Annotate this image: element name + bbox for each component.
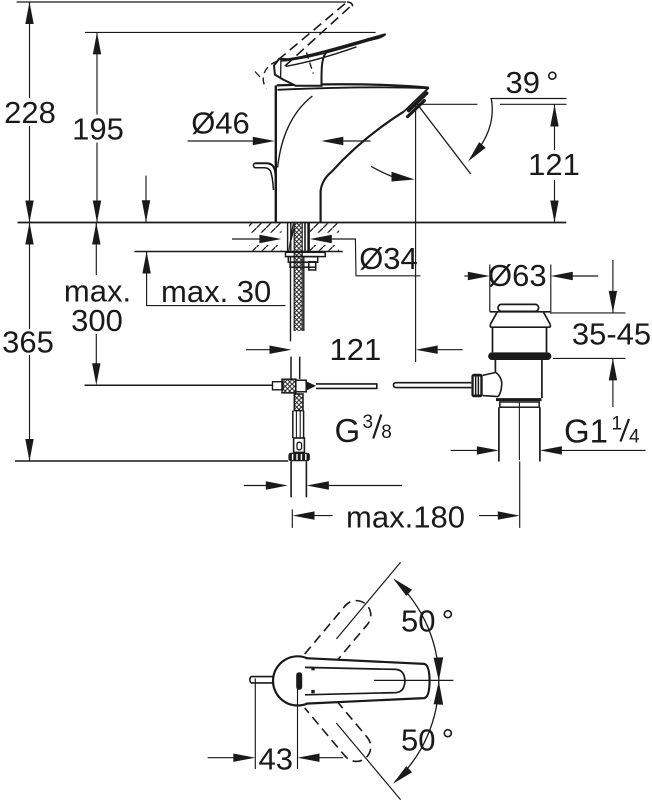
svg-text:121: 121 <box>330 332 382 367</box>
svg-text:50 °: 50 ° <box>401 723 454 758</box>
dim 121 mid left arrow <box>270 346 292 354</box>
handle raised dashed butt tick <box>255 72 260 78</box>
hose right outer line <box>303 257 305 332</box>
dim max300 arrow down <box>92 363 100 385</box>
top view handle dot lower <box>311 690 314 693</box>
counter hatching right block <box>310 223 339 232</box>
faucet interior contour curve <box>278 96 313 168</box>
dim max180 right tail <box>479 515 498 517</box>
top view handle base circle <box>273 656 308 705</box>
drain center line <box>518 402 520 460</box>
knurled coupling nut <box>288 453 310 461</box>
handle butt face line <box>280 60 282 78</box>
counter hatching left block <box>249 223 282 232</box>
rod segment A <box>316 384 377 389</box>
svg-text:43: 43 <box>258 742 292 777</box>
dim 43 left tail <box>208 757 235 759</box>
dim 195 line lower <box>96 143 98 223</box>
drain neck walls <box>493 327 547 352</box>
drain body walls <box>495 360 542 398</box>
handle lever interior line lower <box>286 47 357 67</box>
dim 43 right arrow <box>298 754 320 762</box>
top view arc down arrowhead at leg <box>393 766 412 784</box>
dim G1 1/4 left tail <box>451 449 478 451</box>
dim 195 line upper <box>96 32 98 114</box>
handle raised dashed front line <box>307 53 314 74</box>
mounting nut step 1 <box>288 257 317 263</box>
dim 39 shelf line <box>490 98 566 100</box>
svg-text:3: 3 <box>363 412 374 433</box>
dim Ø63 right arrow <box>551 272 573 280</box>
dim G1 1/4 left arrow <box>477 446 499 454</box>
drain tailpipe walls <box>499 407 540 461</box>
rod tee square <box>296 380 306 392</box>
dim 121 mid right arrow <box>416 346 438 354</box>
dim 35-45 lower extension line <box>553 357 626 359</box>
svg-text:50 °: 50 ° <box>401 604 454 639</box>
dim 39 arc <box>471 99 492 159</box>
rod segment B <box>394 383 472 388</box>
dim 121 top arrow up <box>550 105 558 127</box>
faucet deck lower line <box>278 87 429 90</box>
dim G1 1/4 right tail <box>562 449 646 451</box>
dim Ø46 left arrow <box>253 137 275 145</box>
svg-text:8: 8 <box>381 422 392 443</box>
dim 365 arrow up <box>25 223 33 245</box>
faucet pull-rod knob left cap <box>253 163 254 168</box>
top view pull-rod stub <box>250 677 278 683</box>
dim 365 arrow down <box>25 439 33 461</box>
dim 43 left extension line <box>254 678 256 769</box>
mounting nut side square <box>309 262 316 270</box>
dim 228 arrow down <box>25 201 33 223</box>
dim G3/8 right tail <box>329 485 403 487</box>
dim max300 line upper <box>95 223 97 276</box>
drain flange bottom line <box>490 326 550 328</box>
dim Ø63 left tail <box>464 275 469 277</box>
dim 365 line lower <box>29 355 31 461</box>
faucet aerator strip A <box>409 93 427 110</box>
dim 39 arc arrowhead <box>468 142 486 161</box>
dim 43 right extension line <box>297 686 299 769</box>
faucet body left edge <box>275 85 277 222</box>
hose tube inner lines <box>296 411 300 438</box>
drain body bottom edge <box>496 398 542 401</box>
rod left fitting <box>273 382 284 390</box>
hose end bead block <box>294 438 305 452</box>
dim Ø34 left arrow <box>259 235 281 243</box>
svg-text:365: 365 <box>2 325 54 360</box>
faucet aerator strip B <box>408 101 425 117</box>
dim max180 left arrow <box>293 511 315 519</box>
dim 35-45 line lower with up arrow <box>612 358 614 407</box>
handle lever interior line upper <box>281 38 378 61</box>
counter top line <box>18 222 567 224</box>
shank taper lines <box>289 224 295 252</box>
dim Ø46 right tail <box>343 140 371 142</box>
pull rod left segment <box>85 384 273 386</box>
aerator diagonal leader <box>418 105 471 175</box>
dim Ø63 right tail <box>573 275 599 277</box>
top view angle leg up <box>336 562 400 639</box>
dim 43 right tail <box>319 757 343 759</box>
top view arc down <box>395 681 439 782</box>
dim max30 lower line with up arrow and shelf <box>147 252 286 306</box>
dim Ø34 leader <box>331 239 420 276</box>
drain knurled knob <box>471 374 482 398</box>
dim 365 line upper <box>29 223 31 330</box>
svg-text:max.180: max.180 <box>346 500 465 535</box>
svg-text:G: G <box>335 412 361 449</box>
dim G3/8 slash <box>373 415 381 439</box>
svg-text:Ø46: Ø46 <box>191 106 250 141</box>
rod tee wedge <box>306 381 316 390</box>
dim G1 1/4 slash <box>621 419 630 442</box>
dim 121 mid left tail <box>246 349 270 351</box>
mounting washer <box>286 252 326 256</box>
dim max180 right arrow <box>498 511 520 519</box>
top view handle dot upper <box>311 667 314 670</box>
dim 35-45 upper extension line <box>552 312 626 314</box>
svg-text:4: 4 <box>629 427 640 448</box>
dim Ø63 right extension line <box>550 265 552 314</box>
dim max300 arrow up <box>92 223 100 245</box>
dim Ø46 left tail <box>188 140 253 142</box>
faucet pull-rod knob inner <box>255 168 274 190</box>
svg-text:228: 228 <box>4 95 56 130</box>
hose end bead hole <box>297 442 302 450</box>
dim 121 top line upper <box>554 105 556 151</box>
handle raised dashed butt arc <box>263 61 277 89</box>
counter bottom line <box>134 251 342 253</box>
handle lever solid outline <box>274 34 386 86</box>
top view angle leg down <box>336 723 400 800</box>
hose tube outer walls <box>293 411 304 438</box>
top view arc up <box>395 580 439 681</box>
hose lower wall lines above rod tee <box>291 357 300 379</box>
svg-text:35-45: 35-45 <box>572 317 651 352</box>
drain flange flare left <box>490 312 497 327</box>
top view handle inner outline <box>305 667 405 694</box>
top view center line <box>374 679 453 681</box>
top view dashed lever down <box>305 689 377 767</box>
flow arc arrow tail <box>371 166 392 176</box>
mounting nut step 2 <box>290 262 316 267</box>
drain side horn outline <box>483 372 502 396</box>
top view arc down arrowhead at center line <box>434 681 444 705</box>
dim 228 line upper <box>29 2 31 98</box>
hose crosshatch below tee <box>294 394 303 411</box>
handle raised dashed lower line <box>285 5 353 67</box>
dim 228 line lower <box>29 126 31 223</box>
flexible hose crosshatch upper <box>294 224 302 332</box>
drain flange shoulder line <box>490 311 551 313</box>
shank right wall pair <box>304 223 306 252</box>
flow arc arrowhead <box>392 172 415 182</box>
svg-text:195: 195 <box>72 112 124 147</box>
svg-text:39 °: 39 ° <box>505 65 558 100</box>
svg-text:G1: G1 <box>564 413 608 450</box>
dim 121 top arrow down <box>550 201 558 223</box>
dim max180 right extension line <box>519 461 521 528</box>
dim Ø34 right arrow <box>310 235 332 243</box>
dim Ø34 left tail <box>232 238 260 240</box>
rod tee crosshatch block <box>282 379 296 393</box>
faucet pull-rod knob outer <box>255 163 276 190</box>
dim G3/8 right arrow <box>307 481 329 489</box>
drain plug cap pill <box>498 304 539 311</box>
dim 35-45 line upper with down arrow <box>612 260 614 313</box>
dim max300 line lower <box>95 334 97 382</box>
handle raised dashed tip arc <box>347 2 353 9</box>
top view handle marker pill <box>296 672 302 690</box>
dim 228 extension line top <box>17 1 346 3</box>
aerator vertical extension line <box>415 105 417 363</box>
drain groove box <box>500 402 539 407</box>
svg-text:300: 300 <box>71 303 123 338</box>
dim 365 bottom extension line <box>15 460 288 462</box>
faucet spout tip face <box>404 88 429 112</box>
top view dashed lever up <box>305 595 377 673</box>
aerator horizontal extension line <box>417 103 567 105</box>
dim Ø63 left arrow <box>468 272 490 280</box>
svg-text:max. 30: max. 30 <box>161 274 271 309</box>
dim 121 mid right tail <box>438 349 463 351</box>
dim G1 1/4 right arrow <box>540 446 562 454</box>
faucet deck top line <box>277 84 429 87</box>
shank wall lines in counter hole <box>288 223 291 252</box>
G3/8 pipe walls <box>291 461 306 497</box>
dim G3/8 left tail <box>244 485 267 487</box>
dim 195 arrow up <box>93 32 101 54</box>
dim max30 upper line with down arrow <box>145 176 147 223</box>
dim 195 extension line <box>85 31 376 33</box>
faucet spout underside and right edge <box>321 112 404 223</box>
svg-text:121: 121 <box>528 147 580 182</box>
hose left outer line <box>290 257 292 342</box>
svg-text:Ø34: Ø34 <box>359 241 418 276</box>
top view handle blade outline <box>306 658 430 703</box>
dim 121 top line lower <box>554 180 556 223</box>
dim G3/8 left arrow <box>266 481 288 489</box>
top view arc up arrowhead at center line <box>434 657 444 681</box>
dim 228 arrow up <box>25 2 33 24</box>
svg-text:1: 1 <box>612 414 623 435</box>
dim 43 left arrow <box>233 754 255 762</box>
dim Ø63 left extension line <box>489 265 491 312</box>
dim max180 left extension line <box>291 509 293 528</box>
drain flange flare right <box>543 312 550 327</box>
drain rubber seal <box>488 352 551 360</box>
top view arc up arrowhead at leg <box>393 578 412 596</box>
handle raised dashed upper line <box>278 2 347 60</box>
dim max180 left tail <box>314 515 333 517</box>
dim 195 arrow down <box>93 201 101 223</box>
flexible hose wall lines upper <box>294 224 302 332</box>
dim Ø46 right arrow <box>321 137 343 145</box>
svg-text:Ø63: Ø63 <box>488 258 547 293</box>
